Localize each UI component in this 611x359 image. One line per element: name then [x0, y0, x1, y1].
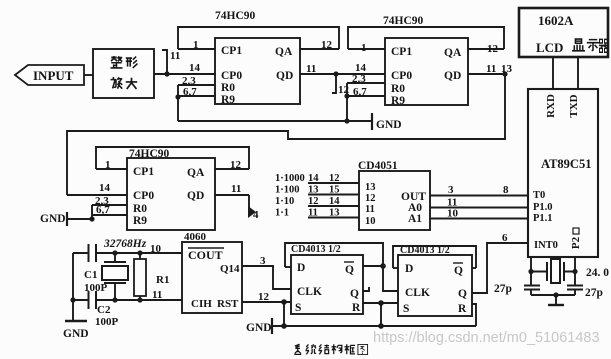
svg-text:CP0: CP0 — [221, 70, 242, 82]
wire U3 QA pin12 — [215, 168, 249, 170]
wire U6 Qbar output — [363, 265, 383, 267]
wire U3 CP0 pin14 — [67, 194, 127, 196]
svg-text:1: 1 — [193, 39, 199, 51]
wire 4060 RST pin12 to U6 S — [242, 301, 291, 303]
svg-text:https://blog.csdn.net/m0_51061: https://blog.csdn.net/m0_51061483 — [373, 330, 600, 346]
wire U6 D input — [285, 266, 291, 268]
svg-text:D: D — [297, 262, 305, 274]
svg-text:R: R — [458, 303, 467, 315]
svg-text:100P: 100P — [95, 316, 119, 328]
ground bus CD4013 — [272, 325, 476, 327]
svg-text:CP0: CP0 — [391, 70, 412, 82]
wire RST tie to ground bus — [283, 302, 285, 326]
svg-text:11: 11 — [306, 63, 316, 75]
wire XTAL right — [574, 257, 576, 285]
svg-text:12: 12 — [487, 43, 499, 55]
wire 4060 Q14 pin3 to U6 CLK — [242, 266, 291, 289]
ground G4 — [65, 320, 87, 322]
svg-text:CLK: CLK — [297, 286, 322, 298]
wire reset bus U1-U2 — [178, 120, 372, 122]
svg-text:R0: R0 — [391, 83, 405, 95]
svg-text:14: 14 — [99, 182, 111, 194]
svg-text:11: 11 — [170, 50, 180, 62]
wire U3 R9 pins 6,7 — [92, 214, 127, 216]
svg-text:QA: QA — [275, 46, 293, 58]
svg-text:2,3: 2,3 — [352, 73, 366, 85]
oscillator U9 box — [182, 242, 242, 313]
wire left rail — [72, 253, 74, 320]
wire osc bottom branch — [73, 299, 182, 301]
LCD module 1602A box — [519, 8, 608, 57]
MCU U5 AT89C51 box — [528, 89, 598, 257]
svg-text:Q: Q — [345, 264, 354, 276]
svg-text:Q: Q — [350, 288, 359, 300]
wire to U2 CP0 pin14 — [336, 73, 385, 75]
svg-text:1·1000: 1·1000 — [275, 173, 305, 184]
svg-text:6: 6 — [502, 232, 508, 244]
svg-text:10: 10 — [447, 208, 459, 220]
svg-text:Q: Q — [458, 288, 467, 300]
flip-flop U6 box — [291, 255, 363, 314]
svg-text:Q14: Q14 — [220, 263, 240, 275]
svg-text:8: 8 — [503, 184, 509, 196]
svg-text:1·1: 1·1 — [275, 208, 289, 219]
resistor R1 — [139, 253, 141, 300]
wire U3 QD pin11 — [215, 194, 249, 196]
svg-text:13: 13 — [329, 208, 340, 219]
svg-text:13: 13 — [365, 182, 376, 193]
svg-text:QA: QA — [444, 47, 462, 59]
ground G5 — [555, 295, 557, 304]
svg-text:C1: C1 — [84, 269, 97, 281]
wire U2 QD pin11 — [468, 73, 505, 75]
svg-text:1: 1 — [361, 42, 367, 54]
svg-text:27p: 27p — [494, 283, 512, 295]
svg-text:P2: P2 — [570, 236, 582, 249]
svg-text:AT89C51: AT89C51 — [541, 157, 591, 171]
svg-text:CIH: CIH — [191, 298, 212, 310]
wire U7 feedback Qbar to D — [393, 246, 476, 268]
svg-text:1·10: 1·10 — [275, 196, 294, 207]
wire input to amplifier — [84, 74, 93, 76]
wire U1 R0 pins 2,3 — [178, 84, 215, 86]
wire U6 Q stub — [363, 287, 369, 291]
counter U1 box — [215, 38, 300, 104]
svg-text:CP1: CP1 — [391, 46, 412, 58]
ground G2 — [67, 218, 92, 220]
wire U6 R to U7 S — [363, 302, 398, 304]
svg-text:R9: R9 — [133, 215, 147, 227]
wire OUT pin3 to T0 pin8 — [430, 195, 528, 197]
svg-text:11: 11 — [231, 183, 241, 195]
svg-text:QD: QD — [276, 70, 293, 82]
svg-text:RST: RST — [217, 298, 239, 310]
wire A0 pin11 to P1.0 — [430, 207, 528, 209]
counter U2 box — [385, 38, 468, 105]
svg-text:14: 14 — [189, 62, 201, 74]
svg-text:10: 10 — [365, 216, 376, 227]
wire U3 feedback loop QA to CP1 — [96, 147, 249, 169]
svg-text:R1: R1 — [156, 274, 169, 286]
svg-text:COUT: COUT — [188, 248, 223, 262]
svg-text:QA: QA — [187, 167, 205, 179]
input connector INPUT — [15, 65, 84, 85]
amplifier U8 box 整形放大 — [93, 49, 154, 98]
svg-text:74HC90: 74HC90 — [383, 15, 424, 27]
svg-text:CD4013 1/2: CD4013 1/2 — [291, 244, 341, 255]
crystal Y1 symbol — [104, 253, 126, 300]
svg-text:6,7: 6,7 — [353, 86, 367, 98]
wire U3 reset tie — [91, 205, 93, 219]
svg-text:12: 12 — [308, 196, 319, 207]
svg-text:R9: R9 — [221, 94, 235, 106]
wire U2 pin1 — [348, 48, 385, 50]
capacitor C2 — [88, 291, 90, 309]
svg-text:24. 0: 24. 0 — [586, 267, 609, 279]
svg-text:P1.1: P1.1 — [533, 213, 553, 224]
svg-text:S: S — [295, 302, 301, 314]
svg-text:TXD: TXD — [568, 94, 580, 117]
svg-text:R0: R0 — [221, 82, 235, 94]
svg-text:1602A: 1602A — [538, 13, 574, 28]
svg-text:11: 11 — [365, 204, 375, 215]
svg-text:CP0: CP0 — [133, 190, 154, 202]
svg-text:32768Hz: 32768Hz — [103, 238, 147, 250]
svg-text:6,7: 6,7 — [96, 204, 110, 216]
svg-text:6,7: 6,7 — [183, 86, 197, 98]
svg-text:GND: GND — [376, 119, 402, 131]
svg-text:12: 12 — [258, 291, 270, 303]
wire U1 reset tie vertical — [177, 85, 179, 121]
wire U2 reset tie vertical — [346, 83, 348, 121]
wire amplifier to U1 CP0 — [154, 73, 215, 75]
svg-text:1·100: 1·100 — [275, 185, 300, 196]
svg-text:A1: A1 — [408, 213, 422, 225]
wire gate input 1x1 — [308, 217, 359, 219]
wire U1 pin1 — [178, 48, 215, 50]
wire U1 feedback loop QA to CP1 — [178, 27, 339, 49]
svg-text:74HC90: 74HC90 — [215, 10, 256, 22]
wire cap bottoms — [531, 294, 575, 296]
svg-text:3: 3 — [260, 255, 266, 267]
wire A1 pin10 to P1.1 — [430, 218, 528, 220]
wire LCD RXD — [552, 57, 554, 89]
svg-text:12: 12 — [329, 173, 340, 184]
wire U1 QA pin12 — [300, 48, 339, 50]
ground G1 — [371, 113, 373, 130]
svg-text:11: 11 — [308, 208, 318, 219]
wire U7 R to ground bus — [472, 304, 476, 326]
capacitor C1 — [88, 244, 90, 262]
svg-text:12: 12 — [321, 39, 333, 51]
wire R-S tie down to ground bus — [380, 303, 382, 326]
counter U3 box — [127, 158, 215, 230]
svg-text:GND: GND — [246, 322, 272, 334]
svg-text:INPUT: INPUT — [33, 68, 74, 83]
wire gate input 1x100 — [308, 194, 359, 196]
wire U1 R9 pins 6,7 — [178, 95, 215, 97]
capacitor C4 27p right — [567, 286, 583, 290]
svg-text:12: 12 — [365, 193, 376, 204]
wire gate input 1x10 — [308, 205, 359, 207]
svg-text:13: 13 — [308, 185, 319, 196]
svg-text:LCD: LCD — [536, 40, 563, 55]
svg-text:14: 14 — [329, 196, 340, 207]
wire U7 D input — [393, 267, 398, 269]
caption 系统结构框图 — [294, 344, 301, 354]
svg-text:C2: C2 — [97, 304, 111, 316]
svg-text:15: 15 — [329, 185, 340, 196]
wire U6 feedback Qbar to D — [285, 243, 398, 291]
svg-text:4: 4 — [253, 209, 259, 221]
svg-text:CP1: CP1 — [133, 166, 154, 178]
stub pin 11 — [162, 50, 167, 74]
wire U3 R0 pins 2,3 — [92, 204, 127, 206]
wire U2 R0 pins 2,3 — [347, 82, 385, 84]
svg-text:1: 1 — [105, 159, 111, 171]
crystal Y2 symbol — [531, 262, 575, 281]
wire XTAL left — [530, 257, 532, 285]
svg-text:11: 11 — [486, 63, 496, 75]
wire U2 QA pin12 — [468, 48, 504, 50]
svg-text:T0: T0 — [533, 190, 545, 201]
wire U1 QD pin11 to U2 CP0 — [300, 73, 336, 75]
svg-text:GND: GND — [40, 213, 66, 225]
wire gate input 1x1000 — [308, 182, 359, 184]
svg-text:27p: 27p — [585, 287, 603, 299]
svg-text:QD: QD — [444, 70, 461, 82]
ground G3 — [271, 318, 273, 334]
svg-text:12: 12 — [230, 159, 242, 171]
wire U2 R9 pins 6,7 — [347, 95, 385, 97]
node A junction dot — [164, 71, 169, 76]
svg-text:R: R — [352, 302, 361, 314]
wire LCD TXD — [577, 57, 579, 89]
svg-text:S: S — [403, 303, 409, 315]
wire osc top branch — [73, 252, 182, 254]
svg-text:Q: Q — [454, 265, 463, 277]
stub pin 12 — [332, 74, 336, 93]
svg-text:INT0: INT0 — [534, 240, 558, 251]
wire U2 feedback loop QA to CP1 — [348, 27, 504, 49]
wire U3 pin1 — [96, 168, 127, 170]
svg-text:GND: GND — [63, 328, 89, 340]
svg-text:R0: R0 — [133, 203, 147, 215]
svg-text:P1.0: P1.0 — [533, 202, 553, 213]
wire U7 Qbar output — [472, 267, 476, 269]
svg-text:CP1: CP1 — [221, 45, 242, 57]
svg-text:D: D — [405, 263, 413, 275]
wire U2 QD down and across to U3 CP0 — [67, 74, 505, 195]
mux U4 box — [359, 171, 430, 230]
flip-flop U7 box — [398, 255, 472, 316]
svg-text:CLK: CLK — [405, 287, 430, 299]
svg-text:QD: QD — [187, 190, 204, 202]
svg-text:14: 14 — [308, 173, 319, 184]
wire U7 Q to INT0 pin6 — [472, 243, 528, 293]
svg-text:R9: R9 — [391, 95, 405, 107]
svg-text:3: 3 — [448, 184, 454, 196]
capacitor C3 27p left — [524, 286, 540, 290]
svg-text:RXD: RXD — [545, 94, 557, 118]
stub pin 4 arrow — [248, 195, 250, 214]
